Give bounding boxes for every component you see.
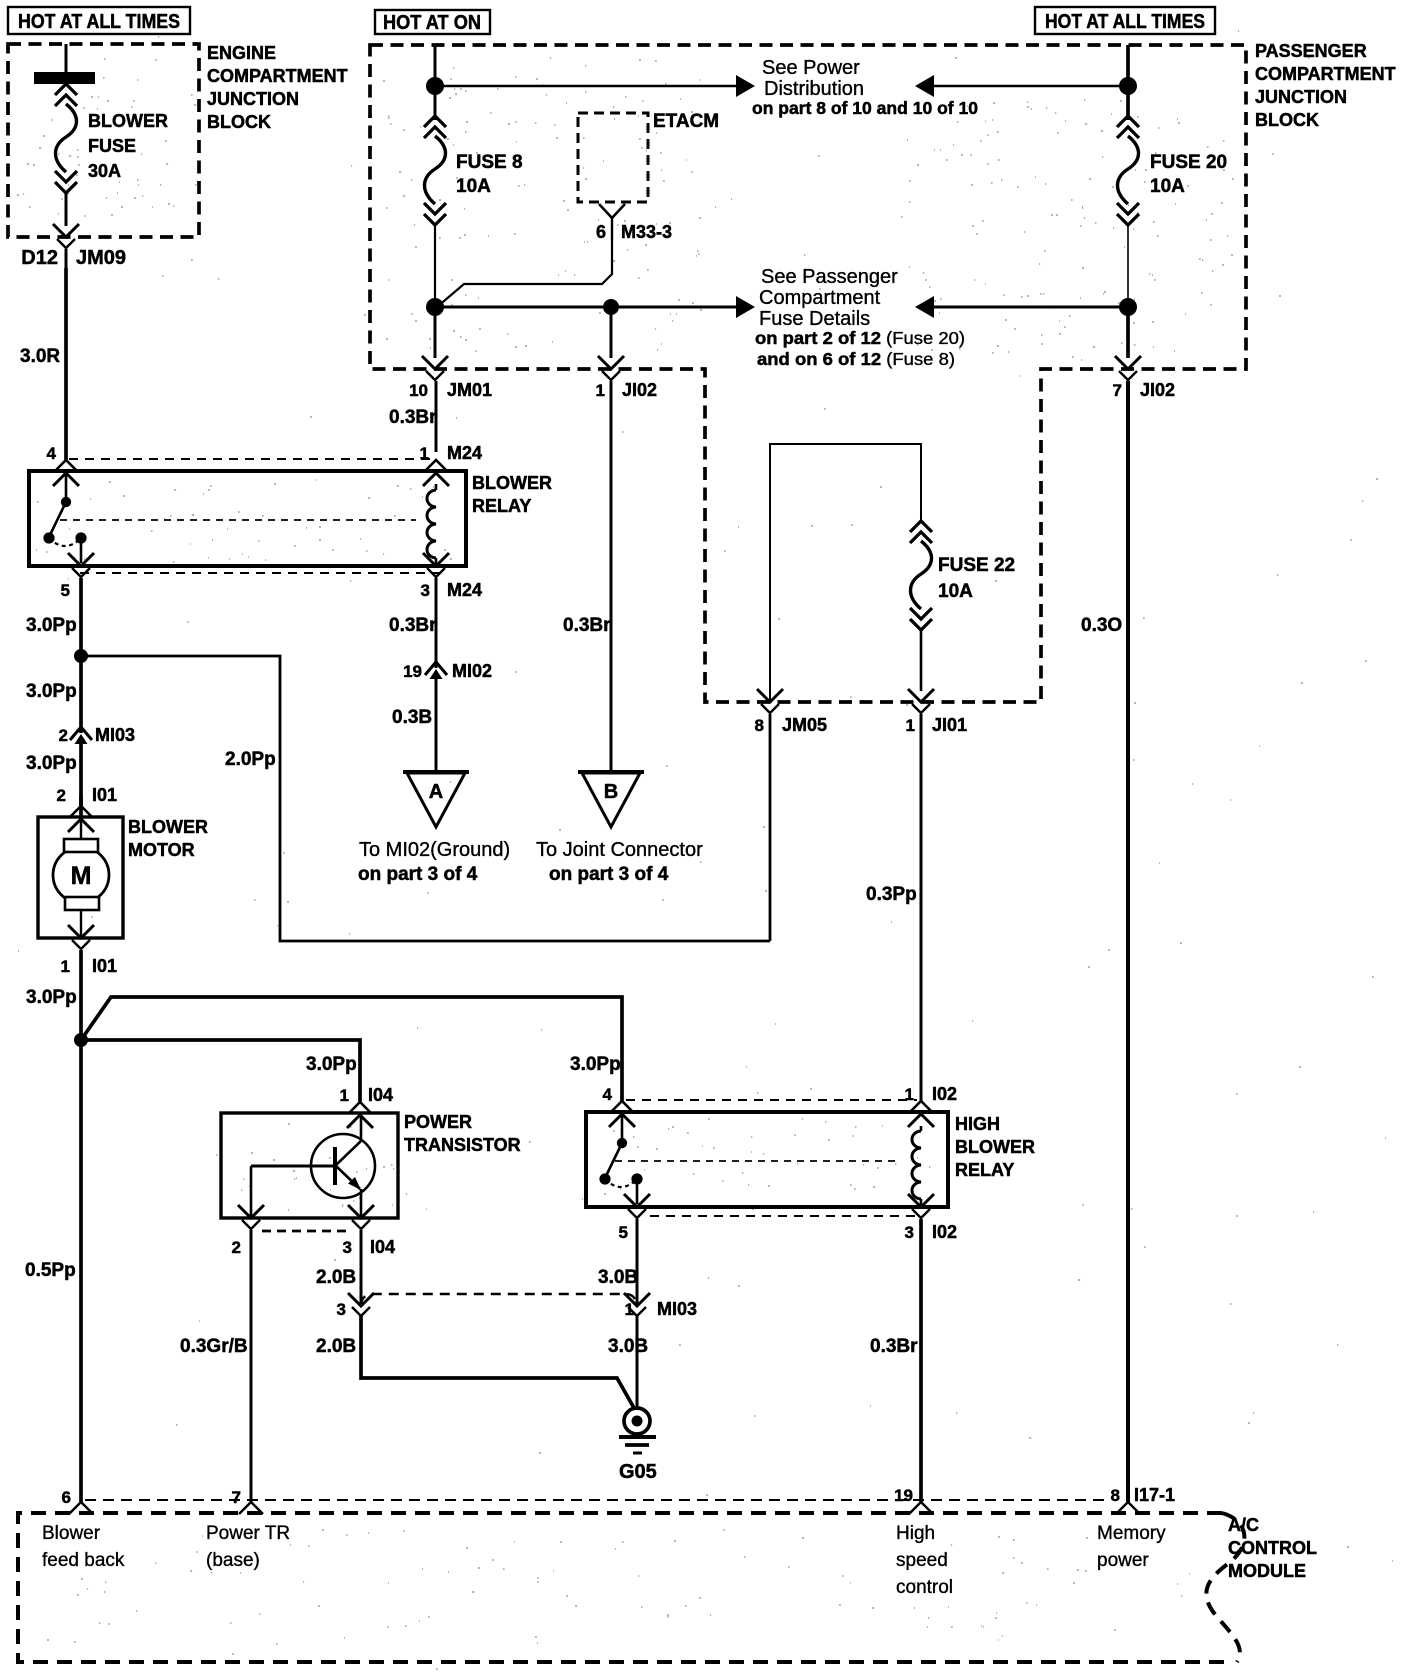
svg-text:To Joint Connector: To Joint Connector: [536, 839, 703, 861]
connector 7 JI02: [1113, 356, 1176, 400]
svg-text:0.3Pp: 0.3Pp: [866, 884, 917, 905]
svg-text:1: 1: [340, 1086, 349, 1105]
pin 4 connector: [47, 444, 79, 486]
svg-text:10A: 10A: [1150, 176, 1185, 197]
svg-text:RELAY: RELAY: [472, 496, 531, 516]
svg-text:BLOWER: BLOWER: [128, 817, 208, 837]
svg-text:POWER: POWER: [404, 1112, 472, 1132]
svg-text:4: 4: [603, 1085, 613, 1104]
svg-text:3.0Pp: 3.0Pp: [570, 1054, 621, 1075]
svg-text:FUSE 8: FUSE 8: [456, 152, 523, 173]
svg-text:JM09: JM09: [76, 247, 126, 269]
svg-text:D12: D12: [21, 247, 58, 269]
svg-text:1: 1: [596, 381, 605, 400]
power label: HOT AT ALL TIMES (left): [8, 7, 190, 34]
label A/C CONTROL MODULE: [1228, 1515, 1317, 1581]
svg-text:I04: I04: [370, 1237, 395, 1257]
wire 3.0B to ground: [608, 1315, 648, 1409]
svg-text:3: 3: [337, 1300, 346, 1319]
svg-text:2: 2: [57, 786, 66, 805]
motor bottom connector 1 I01: [61, 925, 118, 976]
svg-text:ENGINE: ENGINE: [207, 43, 276, 63]
svg-text:COMPARTMENT: COMPARTMENT: [207, 66, 348, 86]
svg-text:30A: 30A: [88, 161, 121, 181]
svg-text:MI03: MI03: [657, 1299, 697, 1319]
relay coil: [912, 1126, 921, 1206]
svg-text:0.5Pp: 0.5Pp: [25, 1260, 76, 1281]
wire into fuse 8: [434, 45, 437, 120]
transistor pin 2 connector: [232, 1205, 264, 1257]
svg-text:COMPARTMENT: COMPARTMENT: [1255, 64, 1396, 84]
engine compartment junction block dashed box: [8, 44, 199, 237]
svg-text:JUNCTION: JUNCTION: [1255, 87, 1347, 107]
wire: fuse 8 to junction: [434, 225, 436, 307]
wire 3.0Pp relay pin5 down: [26, 578, 81, 733]
svg-text:on part 3 of 4: on part 3 of 4: [549, 864, 669, 885]
pin 1 M24 connector: [420, 443, 482, 486]
wire to power transistor pin 1: [81, 1040, 360, 1102]
high blower relay box: [586, 1112, 948, 1207]
svg-text:JI02: JI02: [622, 380, 657, 400]
svg-text:MI02: MI02: [452, 661, 492, 681]
label PASSENGER COMPARTMENT JUNCTION BLOCK: [1255, 41, 1396, 130]
blower relay box: [29, 471, 466, 566]
pin function labels: [42, 1523, 125, 1571]
motor internals: [53, 819, 109, 937]
connector 1 I04: [340, 1085, 394, 1105]
svg-text:HOT AT ON: HOT AT ON: [383, 12, 481, 34]
svg-text:Fuse Details: Fuse Details: [759, 308, 870, 330]
module pin 8 I17-1: [1111, 1485, 1176, 1514]
svg-text:10A: 10A: [456, 176, 491, 197]
svg-text:2.0Pp: 2.0Pp: [225, 749, 276, 770]
pin 5 connector: [619, 1194, 650, 1242]
svg-text:MOTOR: MOTOR: [128, 840, 195, 860]
svg-text:4: 4: [47, 444, 57, 463]
svg-text:JM05: JM05: [782, 715, 827, 735]
power label: HOT AT ON: [375, 10, 490, 34]
wire: to passenger fuse details (left arrow): [915, 296, 1128, 318]
wire 3.0R down to blower relay pin 4: [20, 268, 66, 460]
wire: fuse 20 to junction: [1127, 225, 1129, 307]
pin 5 connector: [61, 553, 94, 600]
svg-text:See Power: See Power: [762, 57, 860, 79]
svg-text:3: 3: [905, 1223, 914, 1242]
connector dashed line I02 bottom: [650, 1215, 915, 1217]
svg-text:6: 6: [62, 1488, 71, 1507]
relay switch: [43, 473, 86, 563]
svg-text:0.3Br: 0.3Br: [563, 615, 611, 636]
svg-text:19: 19: [894, 1486, 913, 1505]
node: junction dot (fuse 20 output): [1119, 298, 1137, 316]
wire 0.3Gr/B transistor base down to pin 7: [180, 1230, 251, 1502]
svg-text:I04: I04: [368, 1085, 393, 1105]
transistor Q1 symbol: [251, 1115, 375, 1216]
pin 4 connector: [603, 1085, 635, 1127]
svg-text:PASSENGER: PASSENGER: [1255, 41, 1367, 61]
svg-text:2.0B: 2.0B: [316, 1267, 356, 1288]
svg-text:1: 1: [905, 1085, 914, 1104]
svg-text:0.3O: 0.3O: [1081, 615, 1122, 636]
wire 0.3Br down to triangle B: [563, 381, 611, 772]
svg-text:Memory: Memory: [1097, 1523, 1166, 1544]
svg-text:BLOCK: BLOCK: [1255, 110, 1319, 130]
svg-text:Blower: Blower: [42, 1523, 101, 1544]
label ENGINE COMPARTMENT JUNCTION BLOCK: [207, 43, 348, 132]
svg-text:3.0R: 3.0R: [20, 346, 60, 367]
svg-text:3.0B: 3.0B: [608, 1336, 648, 1357]
svg-text:MODULE: MODULE: [1228, 1561, 1306, 1581]
wire: fuse to D12 connector: [65, 193, 68, 226]
wire 2.0B transistor pin3 down: [316, 1230, 361, 1304]
svg-text:BLOWER: BLOWER: [472, 473, 552, 493]
power transistor box: [221, 1113, 398, 1218]
transistor pin 1 connector: [347, 1102, 373, 1128]
svg-text:HIGH: HIGH: [955, 1114, 1000, 1134]
connector D12 / JM09: [21, 224, 126, 269]
node: junction dot blower feed: [74, 1033, 88, 1047]
wire 3.0Pp to blower motor: [26, 741, 81, 806]
wire 3.0Pp motor to junction: [26, 950, 81, 1040]
svg-text:To MI02(Ground): To MI02(Ground): [359, 839, 510, 861]
svg-text:2: 2: [232, 1238, 241, 1257]
wire JI02 feed: [610, 307, 613, 358]
svg-text:1: 1: [420, 444, 429, 463]
svg-text:2: 2: [59, 726, 68, 745]
wire 3.0B relay pin5 down: [598, 1219, 638, 1304]
svg-text:5: 5: [619, 1223, 628, 1242]
svg-text:(base): (base): [206, 1550, 260, 1571]
wire: to power distribution (left arrow): [915, 75, 1128, 97]
svg-text:3.0Pp: 3.0Pp: [26, 987, 77, 1008]
wire loop feeding fuse 22: [770, 444, 921, 702]
passenger compartment junction block dashed outline: [370, 45, 1246, 702]
wire: battery feed into blower fuse: [65, 44, 68, 74]
svg-text:HOT AT ALL TIMES: HOT AT ALL TIMES: [1045, 11, 1205, 33]
svg-text:5: 5: [61, 581, 70, 600]
svg-text:A: A: [429, 781, 443, 803]
svg-text:High: High: [896, 1523, 935, 1544]
svg-text:0.3Gr/B: 0.3Gr/B: [180, 1336, 248, 1357]
wire: see power distribution (right arrow): [435, 75, 755, 97]
svg-text:Compartment: Compartment: [759, 287, 881, 309]
svg-text:HOT AT ALL TIMES: HOT AT ALL TIMES: [18, 11, 180, 33]
node: junction dot 2.0Pp branch: [74, 649, 88, 663]
A/C control module dashed box: [18, 1513, 1230, 1662]
blower motor box: [38, 817, 123, 938]
svg-text:M33-3: M33-3: [621, 222, 672, 242]
svg-text:3.0Pp: 3.0Pp: [26, 615, 77, 636]
svg-text:power: power: [1097, 1550, 1149, 1571]
svg-text:G05: G05: [619, 1461, 657, 1483]
wire M24 pin3 0.3Br down: [389, 578, 437, 668]
note: See Power Distribution: [752, 57, 978, 118]
ETACM dashed box: [578, 113, 648, 202]
node: junction dot (fuse 8 output): [426, 298, 444, 316]
svg-text:M24: M24: [447, 580, 482, 600]
wire to high blower relay pin 4: [81, 997, 622, 1101]
svg-text:I02: I02: [932, 1222, 957, 1242]
node: junction dot (JI02 branch): [603, 299, 619, 315]
svg-text:10A: 10A: [938, 581, 973, 602]
svg-text:I02: I02: [932, 1084, 957, 1104]
svg-text:1: 1: [625, 1300, 634, 1319]
relay mid dashed line: [615, 1160, 900, 1162]
svg-text:See Passenger: See Passenger: [761, 266, 898, 288]
svg-text:Power TR: Power TR: [206, 1523, 290, 1544]
svg-text:BLOWER: BLOWER: [955, 1137, 1035, 1157]
wire: fuse 20 down to 7 JI02: [1126, 307, 1130, 358]
connector 1 JI01: [906, 689, 968, 735]
svg-text:control: control: [896, 1577, 953, 1598]
fuse FUSE 22 10A: [910, 521, 1015, 630]
wire 0.3Br high speed control: [870, 1219, 921, 1502]
connector 8 JM05: [755, 689, 828, 735]
svg-text:TRANSISTOR: TRANSISTOR: [404, 1135, 521, 1155]
svg-text:1: 1: [906, 716, 915, 735]
module pin 19: [894, 1486, 933, 1514]
svg-text:8: 8: [1111, 1486, 1120, 1505]
svg-text:RELAY: RELAY: [955, 1160, 1014, 1180]
svg-text:and on 6 of 12 (Fuse 8): and on 6 of 12 (Fuse 8): [757, 349, 955, 369]
module pin 6: [62, 1488, 93, 1514]
wire 2.0Pp branch: right, down, right to JM05 wire: [81, 656, 770, 941]
wire 2.0B to ground run: [316, 1315, 634, 1408]
svg-text:BLOCK: BLOCK: [207, 112, 271, 132]
wire from M33-3 to junction node: [437, 240, 612, 307]
svg-text:B: B: [604, 781, 618, 803]
relay switch: [599, 1114, 642, 1204]
svg-text:3.0B: 3.0B: [598, 1267, 638, 1288]
svg-text:MI03: MI03: [95, 725, 135, 745]
svg-text:JI01: JI01: [932, 715, 967, 735]
pin 3 M24 connector: [421, 553, 482, 600]
svg-text:JM01: JM01: [447, 380, 492, 400]
svg-text:0.3Br: 0.3Br: [870, 1336, 918, 1357]
wire 0.3B to triangle A: [392, 676, 436, 772]
svg-text:2.0B: 2.0B: [316, 1336, 356, 1357]
svg-text:3: 3: [343, 1238, 352, 1257]
svg-text:10: 10: [409, 381, 428, 400]
wire into fuse 20: [1126, 45, 1130, 120]
transistor pin 3 I04 connector: [343, 1205, 396, 1257]
note: To Joint Connector: [536, 839, 703, 885]
module pin 7: [232, 1488, 263, 1514]
note: See Passenger Compartment Fuse Details: [755, 266, 965, 369]
svg-text:3.0Pp: 3.0Pp: [26, 681, 77, 702]
svg-text:JUNCTION: JUNCTION: [207, 89, 299, 109]
wire: see passenger fuse details (right arrow): [435, 296, 755, 318]
svg-text:19: 19: [403, 662, 422, 681]
connector dashed line M24 top: [69, 458, 431, 460]
svg-text:on part 8 of 10 and 10 of 10: on part 8 of 10 and 10 of 10: [752, 98, 978, 118]
svg-text:speed: speed: [896, 1550, 948, 1571]
svg-text:M24: M24: [447, 443, 482, 463]
dashed link to MI03: [361, 1294, 637, 1305]
svg-text:I01: I01: [92, 785, 117, 805]
connector 2 I01: [57, 785, 118, 817]
connector 1 MI03 (inline, down): [624, 1293, 697, 1319]
ground G05: [619, 1408, 657, 1483]
connector 19 MI02 (inline): [403, 661, 492, 681]
connector 1 JI02: [596, 356, 658, 400]
fuse FUSE 8 10A: [424, 116, 523, 225]
bus bar: [34, 72, 95, 84]
dashed link pins 2-3: [262, 1230, 350, 1233]
pin 1 I02 connector: [905, 1084, 958, 1127]
svg-text:0.3B: 0.3B: [392, 707, 432, 728]
svg-text:feed back: feed back: [42, 1550, 125, 1571]
connector dashed line at module: [85, 1499, 1105, 1501]
power label: HOT AT ALL TIMES (right): [1035, 7, 1215, 34]
svg-text:A/C: A/C: [1228, 1515, 1259, 1535]
svg-text:6: 6: [596, 222, 606, 242]
svg-text:FUSE 22: FUSE 22: [938, 555, 1015, 576]
svg-text:3: 3: [421, 581, 430, 600]
svg-text:on part 3 of 4: on part 3 of 4: [358, 864, 478, 885]
svg-text:I17-1: I17-1: [1134, 1485, 1175, 1505]
note: To MI02(Ground): [358, 839, 510, 885]
wire 0.3Br to M24 pin 1: [389, 381, 437, 452]
relay mid dashed line: [60, 519, 416, 521]
svg-text:3.0Pp: 3.0Pp: [26, 753, 77, 774]
off-page triangle A: [403, 772, 469, 827]
svg-text:ETACM: ETACM: [653, 111, 719, 132]
svg-text:0.3Br: 0.3Br: [389, 407, 437, 428]
svg-text:Distribution: Distribution: [764, 78, 864, 100]
svg-text:BLOWER: BLOWER: [88, 111, 168, 131]
svg-text:0.3Br: 0.3Br: [389, 615, 437, 636]
connector 3 (inline, down): [337, 1293, 374, 1319]
wire 0.3Pp JI01 to high blower relay coil: [866, 714, 921, 1101]
wire fuse 22 to JI01: [920, 630, 923, 691]
fuse BLOWER FUSE 30A: [55, 84, 168, 193]
svg-text:FUSE 20: FUSE 20: [1150, 152, 1227, 173]
fuse FUSE 20 10A: [1117, 116, 1227, 225]
node: junction dot top left of passenger JB: [426, 77, 444, 95]
wire JM01 feed: [434, 307, 437, 358]
connector dashed line M24 bottom: [80, 572, 440, 574]
wire JM05 down to 2.0Pp run: [769, 714, 772, 941]
connector 2 MI03 (inline): [59, 725, 136, 745]
svg-text:7: 7: [232, 1488, 241, 1507]
svg-text:on part 2 of 12 (Fuse 20): on part 2 of 12 (Fuse 20): [755, 328, 965, 348]
relay coil: [427, 484, 436, 565]
motor top connector: [68, 806, 94, 832]
off-page triangle B: [578, 772, 644, 827]
svg-text:7: 7: [1113, 381, 1122, 400]
svg-text:I01: I01: [92, 956, 117, 976]
connector 10 JM01: [409, 356, 492, 400]
wire 0.5Pp down to pin 6: [25, 1040, 81, 1502]
svg-text:8: 8: [755, 716, 764, 735]
svg-text:CONTROL: CONTROL: [1228, 1538, 1317, 1558]
wire 0.3O memory power: [1081, 381, 1128, 1502]
svg-text:1: 1: [61, 957, 70, 976]
svg-text:JI02: JI02: [1140, 380, 1175, 400]
svg-text:M: M: [71, 862, 92, 890]
module right wavy edge: [1206, 1513, 1244, 1662]
node: junction dot (fuse 20 top): [1119, 77, 1137, 95]
connector dashed line I02 top: [626, 1099, 917, 1101]
svg-text:3.0Pp: 3.0Pp: [306, 1054, 357, 1075]
pin 3 I02 connector: [905, 1194, 958, 1242]
connector 6 M33-3: [596, 204, 672, 242]
